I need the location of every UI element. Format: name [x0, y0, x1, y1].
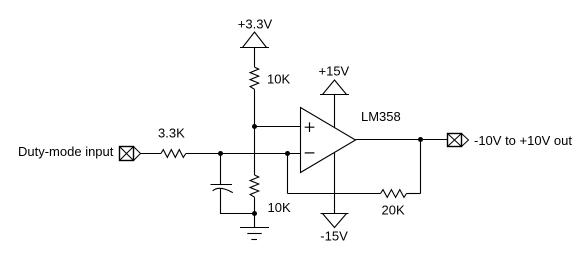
ground	[240, 228, 269, 240]
resistor R1 3.3K	[161, 150, 186, 158]
wire node REF to op-amp non-inverting input	[255, 126, 301, 128]
svg-text:+15V: +15V	[319, 64, 350, 79]
connector J2 output port	[448, 134, 469, 147]
wire feedback right segment	[407, 193, 421, 195]
resistor R3 10K to ground	[250, 175, 259, 197]
svg-text:LM358: LM358	[361, 109, 401, 124]
wire input port to R1	[141, 153, 161, 155]
svg-text:20K: 20K	[382, 203, 405, 218]
resistor R4 20K feedback	[381, 190, 407, 198]
svg-text:10K: 10K	[267, 71, 290, 86]
op-amp U1 LM358	[301, 108, 356, 173]
wire feedback left segment	[288, 193, 381, 195]
wire junction to capacitor C1	[220, 154, 222, 185]
svg-text:+3.3V: +3.3V	[238, 17, 273, 32]
capacitor C1	[211, 185, 233, 193]
junction node IN at capacitor tap	[218, 151, 223, 156]
wire node OUT down to feedback	[420, 140, 422, 194]
wire +15V to op-amp V+ pin	[334, 95, 336, 128]
connector J1 input port	[120, 147, 141, 161]
junction ground node	[252, 211, 257, 216]
wire R2 to divider node and down to R3	[254, 89, 256, 175]
wire R1 to op-amp inverting input (node IN)	[186, 153, 301, 155]
wire feedback riser to node FB	[287, 154, 289, 194]
svg-text:10K: 10K	[268, 200, 291, 215]
power symbol +15V	[320, 80, 349, 95]
junction node REF	[252, 124, 257, 129]
svg-text:Duty-mode input: Duty-mode input	[18, 144, 114, 159]
svg-text:3.3K: 3.3K	[158, 125, 185, 140]
wire to ground symbol	[254, 214, 256, 228]
resistor R2 10K pullup	[250, 67, 259, 89]
wire +3.3V to R2	[254, 48, 256, 68]
junction node FB at inverting input	[285, 151, 290, 156]
wire R3 to ground junction	[254, 197, 256, 213]
wire op-amp output to connector	[356, 139, 448, 141]
svg-text:-15V: -15V	[320, 229, 348, 244]
wire C1 bottom to ground net	[221, 189, 255, 214]
wire op-amp V- pin to -15V	[334, 152, 336, 213]
power symbol -15V	[321, 214, 349, 228]
junction node OUT	[418, 137, 423, 142]
power symbol +3.3V	[240, 32, 269, 48]
svg-text:-10V to +10V out: -10V to +10V out	[474, 133, 572, 148]
